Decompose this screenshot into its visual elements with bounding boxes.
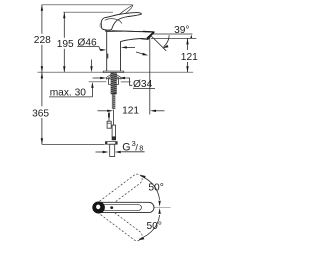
- spout top edge: [112, 31, 154, 32]
- bottom view: lever top view solid: [92, 201, 154, 213]
- faucet lever (closed, solid): [100, 13, 141, 30]
- dimension 121 horizontal (spout reach): [98, 36, 165, 117]
- faucet raised lever (thin outline): [107, 5, 133, 27]
- bottom view: lower 50 arc: [138, 208, 162, 240]
- svg-text:121: 121: [181, 52, 198, 63]
- counter top line: [38, 71, 194, 73]
- bottom view: centerline: [103, 206, 171, 208]
- under counter: washer wings: [106, 75, 121, 80]
- hose 2 with G3/8 pipe: [105, 110, 117, 157]
- label G 3/8 with arrows: [96, 139, 145, 153]
- svg-text:8: 8: [139, 144, 143, 153]
- svg-text:50°: 50°: [148, 183, 163, 194]
- cartridge dot: [110, 206, 113, 209]
- leader arrow to spout axis line: [136, 52, 144, 54]
- cap top line: [105, 30, 122, 32]
- extension line top 228 level: [42, 4, 133, 6]
- 39 degree annotation: [149, 25, 193, 51]
- counter bottom line left: [89, 81, 107, 83]
- svg-text:50°: 50°: [147, 221, 162, 232]
- dimension 121 right vertical: [151, 38, 198, 72]
- extension line 195 level: [63, 11, 113, 13]
- label max. 30 with arrows: [49, 60, 94, 99]
- svg-text:195: 195: [57, 39, 74, 50]
- spout end face (dark chamfer): [147, 32, 154, 38]
- base plate: [103, 71, 124, 72]
- dimension 195: [57, 12, 74, 72]
- svg-text:228: 228: [34, 35, 51, 46]
- knob (dark): [92, 201, 105, 213]
- counter bottom line right: [121, 81, 131, 83]
- threaded shank: [111, 72, 117, 94]
- dimension 228: [34, 5, 51, 72]
- svg-text:365: 365: [32, 108, 49, 119]
- under counter: mounting nut: [108, 79, 118, 85]
- svg-text:121: 121: [122, 106, 139, 117]
- label Ø46 with leader: [77, 37, 135, 51]
- 39 deg arc: [164, 35, 170, 47]
- faucet body and spout: [103, 30, 154, 72]
- braided hose upper: [112, 94, 115, 109]
- bottom view: dashed lever rotated up 50: [97, 172, 145, 211]
- 39 deg diagonal leg: [149, 34, 166, 51]
- dimension 365: [32, 72, 105, 144]
- bottom view: dashed lever rotated down 50: [96, 203, 144, 242]
- label Ø34 with bent leader: [93, 77, 155, 90]
- svg-text:39°: 39°: [174, 25, 189, 36]
- hose 1 short end with fitting: [107, 113, 111, 129]
- aerator dark wedge: [141, 38, 149, 40]
- bottom view: upper 50 arc: [140, 175, 164, 207]
- body logo mark: [106, 54, 108, 59]
